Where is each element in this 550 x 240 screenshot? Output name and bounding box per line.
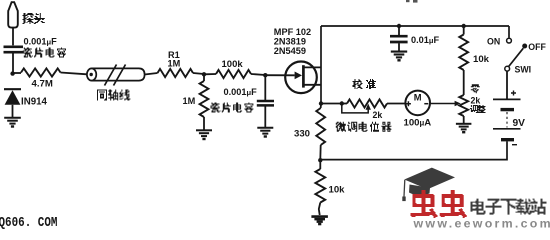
svg-text:OFF: OFF bbox=[528, 42, 546, 52]
wire node H to trimmer bbox=[342, 103, 347, 105]
top edge crop marks bbox=[406, 0, 410, 2]
wire battery to bottom rail bbox=[320, 141, 507, 159]
resistor 1M vertical bbox=[200, 81, 209, 117]
meter plus terminal bbox=[406, 101, 411, 106]
potentiometer 2k element bbox=[459, 95, 468, 116]
SW1 pivot bbox=[505, 66, 510, 71]
svg-text:2k: 2k bbox=[373, 110, 383, 120]
wire top supply rail bbox=[321, 25, 509, 27]
battery plus sign bbox=[511, 91, 516, 96]
label 校准 (calibrate) bbox=[353, 79, 377, 89]
ground under D1 bbox=[4, 117, 21, 119]
wire rail to SW1 contact bbox=[508, 26, 510, 38]
battery mid dashes bbox=[506, 112, 508, 128]
ground under C2 bbox=[257, 127, 273, 129]
capacitor C3 0.01uF plates bbox=[390, 35, 408, 38]
transistor Q1 body circle bbox=[285, 62, 317, 94]
svg-text:10k: 10k bbox=[329, 185, 346, 196]
wire pot to ground bbox=[463, 116, 465, 123]
svg-text:0.001μF: 0.001μF bbox=[24, 37, 58, 47]
wire node E to 10k bbox=[463, 26, 465, 35]
trimmer bypass wire bbox=[342, 104, 368, 113]
pot wiper arrow bbox=[430, 103, 456, 105]
meter minus terminal bbox=[424, 103, 428, 105]
Q1 source stub bbox=[303, 84, 321, 86]
battery B1 plate short top bbox=[501, 108, 515, 111]
Q1 channel bar bbox=[302, 65, 305, 87]
diode D1 IN914 triangle bbox=[5, 90, 21, 105]
svg-text:1M: 1M bbox=[168, 59, 181, 69]
svg-text:MPF 102: MPF 102 bbox=[274, 27, 311, 37]
ground under pot bbox=[456, 123, 472, 125]
resistor 10k upper bbox=[459, 35, 468, 71]
svg-text:IN914: IN914 bbox=[21, 96, 47, 107]
svg-text:M: M bbox=[414, 92, 422, 103]
svg-text:10k: 10k bbox=[473, 54, 490, 65]
label 零 (zero) bbox=[471, 84, 480, 93]
coax cable outer bbox=[87, 68, 96, 80]
svg-text:4.7M: 4.7M bbox=[32, 79, 53, 90]
node A1 junction bbox=[10, 71, 14, 75]
trimmer 2k element (校准) bbox=[347, 99, 387, 107]
node C junction bbox=[263, 73, 267, 77]
svg-text:100μA: 100μA bbox=[404, 117, 432, 128]
svg-text:SWI: SWI bbox=[515, 64, 532, 74]
wire node C to gate bbox=[265, 74, 294, 76]
coax break marks bbox=[105, 65, 117, 86]
battery B1 plate short bottom bbox=[501, 138, 514, 141]
wire C3 to ground bbox=[398, 43, 400, 51]
SW1 OFF contact bbox=[522, 44, 527, 49]
svg-text:100k: 100k bbox=[222, 59, 244, 70]
svg-text:Q606. COM: Q606. COM bbox=[0, 215, 57, 229]
node D junction (0.01uF tap) bbox=[397, 24, 401, 28]
logo 电子下载站 bbox=[471, 199, 547, 215]
wire node F to node H bbox=[321, 103, 342, 105]
logo graduation cap bbox=[404, 168, 455, 190]
label 调整 (adjust) bbox=[470, 105, 486, 113]
wire source node down bbox=[320, 104, 322, 109]
wire 10k to ground bbox=[319, 203, 321, 216]
node B junction bbox=[202, 72, 206, 76]
wire 1M to ground bbox=[203, 117, 205, 130]
wire node C down bbox=[264, 75, 266, 100]
svg-text:2N5459: 2N5459 bbox=[274, 46, 306, 56]
wire node D to C3 bbox=[398, 26, 400, 35]
coax label 同轴线 bbox=[97, 90, 130, 101]
wire 10k to pot R 2k bbox=[463, 70, 465, 95]
node E junction (10k tap) bbox=[462, 24, 466, 28]
Q1 drain-source vertical wire bbox=[320, 26, 322, 104]
wire node B down bbox=[203, 74, 205, 81]
battery B1 plate long bottom bbox=[493, 128, 521, 130]
wire 4.7M to coax bbox=[61, 73, 88, 75]
svg-text:0.001μF: 0.001μF bbox=[224, 87, 258, 97]
wire SW1 to battery bbox=[506, 71, 508, 98]
battery minus sign bbox=[512, 144, 517, 146]
resistor R1 1M bbox=[158, 69, 194, 77]
resistor 330 bbox=[316, 108, 325, 145]
svg-text:2k: 2k bbox=[471, 95, 481, 105]
capacitor C2 0.001uF plates bbox=[257, 100, 274, 103]
resistor 100k bbox=[216, 70, 251, 78]
wire 330 to bottom rail bbox=[319, 145, 321, 160]
capacitor C1 0.001uF plates bbox=[4, 45, 24, 48]
svg-text:0.01μF: 0.01μF bbox=[411, 35, 439, 45]
svg-text:1M: 1M bbox=[183, 96, 196, 106]
resistor 4.7M bbox=[21, 68, 61, 76]
wire 100k to node C bbox=[251, 74, 265, 75]
trimmer wiper arrow bbox=[366, 104, 371, 110]
battery B1 plate long top bbox=[493, 98, 521, 100]
ground under 1M bbox=[196, 129, 212, 131]
node G junction (bottom rail) bbox=[318, 158, 322, 162]
label 微调电位器 (trim pot) bbox=[336, 122, 392, 132]
wire C2 to ground bbox=[264, 107, 266, 128]
C2 label 瓷片电容 bbox=[211, 103, 254, 113]
resistor 10k lower bbox=[315, 169, 325, 203]
wire D1 to ground bbox=[12, 105, 14, 117]
svg-text:9V: 9V bbox=[513, 118, 526, 129]
wire trimmer to meter bbox=[387, 103, 406, 105]
svg-text:330: 330 bbox=[294, 129, 310, 140]
C1 label 瓷片电容 bbox=[23, 48, 66, 58]
wire probe to C1 bbox=[12, 28, 14, 46]
probe tip (探头) bbox=[8, 2, 18, 27]
wire C1 to node A1 bbox=[12, 54, 14, 75]
Q1 gate arrow bbox=[295, 72, 302, 80]
Q1 drain stub bbox=[303, 66, 321, 68]
node H junction bbox=[340, 101, 344, 105]
SW1 lever bbox=[509, 48, 524, 66]
wire node G down bbox=[319, 160, 321, 169]
svg-text:www.eeworm.com: www.eeworm.com bbox=[413, 217, 550, 229]
coax center conductor bbox=[90, 73, 93, 76]
probe label 探头 bbox=[23, 13, 45, 24]
wire node to R 4.7M bbox=[13, 72, 21, 74]
logo 虫虫 red bbox=[411, 190, 467, 218]
node F junction (source) bbox=[319, 101, 323, 105]
svg-text:ON: ON bbox=[487, 36, 500, 46]
SW1 ON contact bbox=[507, 38, 512, 43]
wire R1 to node B bbox=[193, 73, 204, 74]
diode D1 IN914 cathode bar bbox=[4, 88, 21, 90]
wire coax to R1 bbox=[145, 73, 158, 75]
ground under 10k lower bbox=[311, 215, 328, 218]
svg-text:2N3819: 2N3819 bbox=[274, 36, 306, 46]
meter M1 circle bbox=[405, 91, 430, 116]
ground under C3 bbox=[391, 51, 407, 53]
wire node B to R 100k bbox=[204, 73, 216, 75]
